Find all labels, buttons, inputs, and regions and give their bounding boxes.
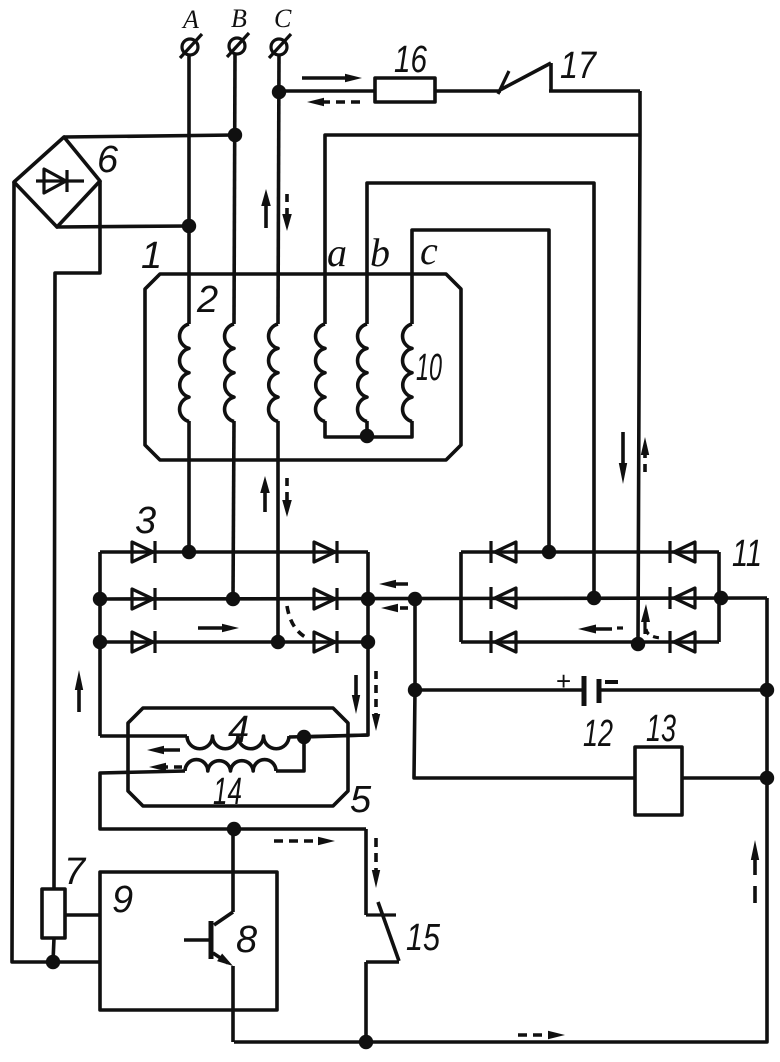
junction dot collector node bbox=[227, 822, 241, 836]
winding 10 coil a bbox=[316, 324, 325, 422]
arrow solid up (line C above block) bbox=[261, 189, 271, 228]
junction dot left rail row2 bbox=[93, 592, 107, 606]
wire resistor 7 bottom bbox=[53, 938, 54, 962]
junction dot A bbox=[182, 219, 196, 233]
regulator box 9 bbox=[100, 872, 277, 1010]
field winding 4 coil bbox=[187, 736, 289, 749]
wire 6 right corner down-left-down to resistor 7 bbox=[54, 181, 100, 889]
svg-text:7: 7 bbox=[64, 851, 87, 893]
diode D2 bridge 3 bbox=[132, 588, 155, 610]
wire winding 4 to winding 14 link bbox=[276, 737, 304, 771]
junction dot B top bbox=[228, 128, 242, 142]
diode D7 bridge 11 bbox=[491, 541, 516, 563]
terminal A bbox=[180, 5, 202, 58]
bridge 3 right rail bbox=[304, 552, 368, 737]
junction dot c bridge11 bbox=[542, 545, 556, 559]
wire phase A below winding bbox=[187, 421, 191, 552]
wire 13 to right rail bbox=[682, 776, 767, 780]
wire phase C below winding bbox=[276, 421, 280, 642]
wire phase B below winding bbox=[233, 421, 234, 599]
wire drop from 17 down to bridge 11 bbox=[638, 91, 640, 645]
bridge 3 row 1 wire bbox=[100, 550, 368, 554]
wire 6 bottom to A junction bbox=[57, 226, 189, 227]
bridge 3 left rail bbox=[98, 552, 102, 736]
bridge 11 left rail bbox=[459, 552, 463, 642]
svg-text:2: 2 bbox=[196, 279, 218, 321]
stator block 1 outline bbox=[145, 274, 461, 460]
winding 10 star leg b bbox=[365, 421, 369, 437]
arrow solid left (winding 4) bbox=[147, 746, 180, 754]
wire 16 to switch 17 bbox=[435, 89, 501, 93]
svg-text:6: 6 bbox=[97, 139, 119, 181]
junction dot battery left bbox=[408, 683, 422, 697]
junction dot battery right rail bbox=[760, 683, 774, 697]
arrow dashed down (right rail to field winding) bbox=[372, 671, 380, 731]
junction dot right rail row2 bbox=[361, 592, 375, 606]
arrow solid right (at 16) bbox=[302, 74, 362, 82]
resistor 16 bbox=[375, 78, 435, 102]
svg-text:A: A bbox=[181, 5, 199, 34]
arrow dashed right (bottom rail) bbox=[518, 1031, 565, 1039]
wire winding tap a upper bbox=[325, 135, 640, 324]
svg-text:15: 15 bbox=[406, 917, 441, 959]
transistor 8 bbox=[184, 829, 233, 1042]
diode D5 bridge 3 bbox=[314, 588, 337, 610]
wire phase B vertical bbox=[234, 54, 235, 324]
winding 10 coil b bbox=[358, 324, 367, 422]
bridge 3 row 3 wire bbox=[100, 640, 368, 644]
winding 14 coil bbox=[185, 760, 276, 771]
svg-text:17: 17 bbox=[560, 45, 598, 87]
arrow dashed left (right of bridge 3) bbox=[381, 604, 408, 612]
junction dot b bridge11 bbox=[587, 591, 601, 605]
arrow dashed left (winding 14) bbox=[149, 763, 182, 771]
bridge 11 row 1 wire bbox=[461, 550, 719, 554]
svg-text:12: 12 bbox=[583, 713, 613, 755]
svg-text:5: 5 bbox=[350, 779, 372, 821]
wire 17 to right drop bbox=[549, 89, 640, 93]
junction dot B bridge3 bbox=[226, 592, 240, 606]
terminal C bbox=[269, 4, 292, 58]
dashed current curve (bridge 3) bbox=[287, 606, 309, 639]
winding 10 star bar bbox=[325, 421, 412, 437]
diode D10 bridge 11 bbox=[670, 541, 695, 563]
svg-text:+: + bbox=[556, 666, 571, 696]
svg-text:a: a bbox=[327, 230, 347, 275]
junction dot C bridge3 bbox=[271, 635, 285, 649]
wire row2 to battery drop bbox=[413, 599, 417, 690]
junction dot switch 15 bottom bbox=[359, 1035, 373, 1049]
arrow solid up (left rail by field winding) bbox=[75, 670, 83, 712]
arrow solid up (line C below block) bbox=[260, 476, 270, 512]
diode D11 bridge 11 bbox=[670, 587, 695, 609]
arrow dashed down (switch 15) bbox=[372, 838, 380, 888]
relay box 13 bbox=[635, 747, 682, 815]
diode D8 bridge 11 bbox=[491, 587, 516, 609]
wire battery drop to relay 13 row bbox=[414, 690, 635, 778]
svg-text:13: 13 bbox=[646, 708, 676, 750]
svg-text:b: b bbox=[370, 230, 390, 275]
diode D6 bridge 3 bbox=[314, 631, 337, 653]
arrow dashed left (at 16) bbox=[307, 98, 360, 106]
bridge 11 row 3 wire bbox=[461, 640, 719, 644]
wire battery row right bbox=[600, 688, 767, 692]
svg-text:c: c bbox=[420, 228, 438, 273]
wire winding 14 left lead bbox=[100, 771, 366, 829]
junction dot bridge11 right rail bbox=[714, 591, 728, 605]
arrow solid left (right of bridge 3) bbox=[379, 580, 408, 588]
arrow dashed up (right drop above bridge 11) bbox=[641, 437, 649, 472]
terminal B bbox=[227, 4, 249, 57]
wire battery row left bbox=[415, 688, 583, 692]
wire winding tap c upper bbox=[412, 230, 549, 552]
wire phase A vertical bbox=[187, 55, 191, 324]
junction dot 13 right rail bbox=[760, 771, 774, 785]
wire resistor 7 tap to box 9 bbox=[65, 913, 100, 917]
svg-text:14: 14 bbox=[213, 771, 242, 813]
rectifier 6 bbox=[14, 137, 100, 227]
junction dot right rail row3 bbox=[361, 635, 375, 649]
junction dot battery branch bbox=[408, 592, 422, 606]
dashed current curve with up arrow (bridge 11) bbox=[641, 604, 661, 638]
diode D3 bridge 3 bbox=[132, 631, 155, 653]
svg-text:1: 1 bbox=[141, 235, 162, 277]
wire left rail into winding 4 bbox=[100, 734, 187, 738]
wire winding 4 right lead bbox=[289, 735, 368, 737]
resistor 7 bbox=[42, 889, 65, 938]
junction dot A bridge3 bbox=[182, 545, 196, 559]
svg-text:16: 16 bbox=[394, 39, 428, 81]
diode D1 bridge 3 bbox=[132, 541, 155, 563]
arrow solid right (bridge 3) bbox=[198, 624, 239, 632]
junction dot resistor 7 bottom bbox=[46, 955, 60, 969]
arrow dashed right (on wire to switch 15) bbox=[274, 837, 335, 845]
wire 6 top to B junction bbox=[64, 135, 235, 137]
arrow dashed down (line C below block) bbox=[282, 478, 292, 517]
junction dot a bridge11 bbox=[631, 637, 645, 651]
field block 4/14 outline bbox=[128, 708, 348, 806]
bridge 11 right rail bbox=[717, 552, 721, 642]
wire winding tap b upper bbox=[367, 183, 594, 598]
diode D4 bridge 3 bbox=[314, 541, 337, 563]
svg-text:9: 9 bbox=[112, 879, 133, 921]
svg-text:C: C bbox=[274, 4, 292, 33]
arrow dashed up (right rail bottom) bbox=[751, 840, 759, 903]
junction dot star point bbox=[360, 429, 374, 443]
junction dot left rail row3 bbox=[93, 635, 107, 649]
diode D12 bridge 11 bbox=[670, 631, 695, 653]
arrow solid down (right drop above bridge 11) bbox=[619, 432, 627, 484]
junction dot C-16 bbox=[272, 85, 286, 99]
svg-text:3: 3 bbox=[135, 500, 156, 542]
arrow dashed down (line C above block) bbox=[282, 194, 292, 231]
right rail down bbox=[234, 598, 767, 1042]
winding 2 coil A bbox=[180, 324, 189, 422]
svg-text:4: 4 bbox=[228, 709, 249, 751]
winding 10 coil c bbox=[403, 324, 412, 422]
svg-text:11: 11 bbox=[732, 533, 762, 575]
svg-text:B: B bbox=[231, 4, 247, 33]
battery 12 bbox=[556, 666, 618, 706]
winding 2 coil C bbox=[269, 324, 278, 422]
wire C to resistor 16 bbox=[279, 89, 375, 93]
switch 17 bbox=[498, 63, 551, 94]
wire 6 left corner down to lower node bbox=[12, 182, 100, 962]
svg-text:10: 10 bbox=[416, 347, 442, 389]
svg-text:8: 8 bbox=[236, 919, 257, 961]
diode D9 bridge 11 bbox=[491, 631, 516, 653]
switch 15 bbox=[366, 829, 399, 1042]
bridge 3 row 2 wire (common rail to right side) bbox=[100, 598, 767, 599]
junction dot field windings bbox=[297, 730, 311, 744]
arrow solid down (right rail to field winding) bbox=[352, 675, 360, 714]
arrow solid left (bridge 11) bbox=[578, 625, 623, 634]
wire phase C vertical bbox=[278, 55, 279, 324]
winding 2 coil B bbox=[225, 324, 234, 422]
